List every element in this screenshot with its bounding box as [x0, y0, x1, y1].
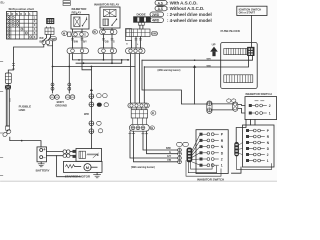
svg-text:: With A.S.C.D.: : With A.S.C.D.: [167, 1, 198, 6]
wire battery to starter (upper): [47, 151, 64, 153]
relay K2 pins: [104, 28, 113, 29]
svg-text:(With warning buzzer): (With warning buzzer): [131, 166, 155, 169]
fusible link head: [5, 85, 11, 89]
wire fusible link to battery: [10, 137, 41, 147]
inline connector S4: [89, 129, 103, 134]
capsule connector R1: [207, 101, 212, 114]
wires capsule C3 down to mid chain: [131, 54, 145, 103]
ground wire G2: [68, 54, 71, 93]
wire below lower box: [232, 167, 242, 173]
wire A bus to fuse block: [142, 56, 253, 61]
svg-text:2: 2: [221, 158, 223, 162]
battery BAT: [37, 147, 47, 162]
label DIODE: [137, 13, 146, 17]
svg-text:LINK: LINK: [19, 108, 27, 112]
tag B1: [151, 111, 156, 115]
svg-text:FUSE BLOCK: FUSE BLOCK: [221, 29, 241, 33]
inhibitor switch 2WD box: [245, 97, 277, 120]
svg-text:W/R: W/R: [84, 113, 89, 116]
connector pair CD1: [63, 150, 73, 154]
capsule connector C2: [98, 48, 117, 54]
label STARTER MOTOR: [65, 175, 91, 179]
tag ovals R2: [227, 99, 236, 102]
svg-text:R: R: [12, 13, 14, 16]
diode connector: [139, 22, 145, 29]
wire loop to starter ground: [57, 156, 80, 177]
tag B2: [150, 126, 154, 130]
connector block E1: [5, 73, 11, 84]
UP arrow: [210, 42, 218, 56]
label INHIBITOR SWITCH (4WD): [197, 178, 224, 182]
bus wire L3: [53, 66, 136, 68]
connector pair CD2: [63, 154, 73, 158]
fuse row upper: [224, 49, 247, 55]
wire ignition to fuse block: [251, 16, 253, 48]
inline oval connectors below X2: [42, 40, 53, 46]
inhibitor switch 4WD box: [196, 130, 228, 174]
capsule connector C1: [67, 48, 89, 54]
wires block J3 to capsule C3: [126, 37, 142, 49]
diode D1: [134, 17, 151, 23]
wire chain to starter (node S): [90, 91, 92, 149]
svg-text:2WD: 2WD: [152, 32, 158, 36]
label W/R: [84, 113, 89, 116]
svg-text:EL·: EL·: [1, 1, 6, 5]
wire labels to 4WD switch: [166, 147, 172, 162]
legend tag 4WD: [150, 18, 212, 23]
svg-text:INHIBITOR RELAY: INHIBITOR RELAY: [94, 3, 119, 7]
svg-text:2: 2: [267, 153, 269, 157]
label INHIBITOR SWITCH (2WD): [246, 92, 272, 96]
INHIBITOR RELAY label (left): [72, 7, 88, 14]
ground wire G1: [51, 66, 54, 93]
inhibitor relay K2: [100, 7, 120, 28]
starter motor box: [64, 161, 103, 172]
label FUSE BLOCK: [221, 29, 241, 33]
inline connector R3: [212, 102, 245, 113]
svg-text:Y/B: Y/B: [167, 159, 171, 162]
label FUSIBLE LINK: [19, 105, 32, 113]
tag 2WD (block J3): [151, 32, 157, 36]
dark mating connector: [187, 148, 193, 163]
mid connector block M2: [131, 108, 147, 118]
inline connector S2: [89, 102, 108, 107]
bus wire L2: [76, 54, 122, 64]
ground connector pair GP1: [50, 95, 59, 99]
svg-text:1: 1: [269, 112, 271, 116]
wire drop to starter chain: [90, 67, 93, 92]
svg-text:IGNITION SWITCH: IGNITION SWITCH: [239, 7, 262, 11]
inline connector S3: [89, 121, 101, 126]
relay K2 connector row: [100, 29, 118, 34]
wire B bus to fuse block: [144, 56, 248, 72]
inline connector S1: [89, 94, 107, 99]
wire battery to starter (lower): [47, 155, 64, 157]
fusible link lower connector: [2, 126, 11, 137]
svg-text:4WD: 4WD: [152, 19, 160, 23]
fuse block FB: [221, 42, 258, 88]
svg-text:GROUND: GROUND: [55, 104, 67, 108]
bus wire L1: [73, 54, 129, 61]
bus wire L4: [82, 54, 91, 70]
svg-text:G: G: [113, 42, 115, 44]
connector X2 (pin grid): [45, 27, 54, 35]
wire loop below lower-right box: [237, 156, 272, 169]
svg-text:2WD: 2WD: [152, 13, 160, 17]
svg-text:UP: UP: [212, 42, 216, 46]
tag oval T2: [183, 142, 189, 146]
wires 2WD box to lower box: [236, 120, 255, 142]
wires relay K2 to capsule C2: [102, 35, 115, 48]
wire stub labels below X2: [40, 37, 45, 44]
fan wires into 4WD switch: [192, 134, 200, 165]
svg-text:B/Y: B/Y: [83, 42, 87, 44]
svg-text:B/W: B/W: [40, 40, 45, 43]
svg-text:2WD: 2WD: [50, 37, 56, 41]
ground below battery: [38, 162, 44, 167]
shift position chart table: [7, 7, 38, 39]
label BATTERY: [36, 169, 51, 173]
svg-text:G/B: G/B: [105, 42, 109, 44]
fuse block connector (dark): [247, 47, 254, 56]
svg-text:N: N: [16, 13, 18, 16]
svg-text:STARTER MOTOR: STARTER MOTOR: [65, 175, 91, 179]
legend tag A.S: [155, 0, 198, 5]
mid capsule M3: [130, 118, 150, 131]
inhibitor relay K1: [71, 13, 89, 29]
svg-text:RELAY: RELAY: [72, 11, 82, 15]
fuse row lower: [224, 75, 253, 83]
svg-text:DIODE: DIODE: [137, 13, 146, 17]
mid capsule M1: [128, 103, 149, 108]
tag oval T1: [177, 142, 183, 146]
svg-text:2: 2: [269, 104, 271, 108]
ground wire left: [7, 84, 9, 87]
wire from X2 to fusible link (left drop): [8, 35, 50, 74]
svg-text:G: G: [169, 151, 171, 154]
svg-text:B: B: [152, 111, 154, 115]
tag W1: [93, 30, 98, 34]
label BODY GROUND: [55, 100, 67, 107]
relay K1 connector row: [68, 32, 89, 37]
connector stack to 4WD switch: [178, 148, 182, 164]
inhibitor switch lower-right box: [243, 125, 275, 167]
2WD switch contact rows: [249, 101, 271, 116]
connector block J3: [126, 29, 151, 41]
wires mid chain to inhibitor 4WD connector: [129, 131, 178, 162]
svg-text:INHIBITOR SWITCH: INHIBITOR SWITCH: [246, 92, 272, 96]
wires relay K1 to capsule C1: [71, 37, 87, 48]
page corner mark: [1, 1, 6, 5]
svg-text:BATTERY: BATTERY: [36, 169, 51, 173]
label with warning note: [131, 166, 155, 169]
wire path bus to inhibitor 2WD: [142, 60, 207, 104]
capsule connector C3: [126, 48, 146, 54]
small connector marks above relay K1: [63, 1, 70, 6]
svg-text:D: D: [20, 13, 22, 16]
svg-text:B/W: B/W: [166, 147, 171, 150]
4WD switch contact rows: [200, 133, 224, 168]
svg-text:Shift position chart: Shift position chart: [9, 7, 34, 11]
svg-text:W: W: [93, 30, 96, 34]
svg-text:ON or START: ON or START: [239, 11, 256, 15]
INHIBITOR RELAY label (right): [94, 3, 119, 7]
svg-text:W/B: W/B: [207, 66, 212, 68]
fusible link FL: [6, 89, 10, 126]
svg-text:B: B: [151, 126, 153, 130]
relay K1 pins: [73, 29, 83, 32]
svg-text:: 2-wheel drive model: : 2-wheel drive model: [167, 12, 212, 17]
wire loops below 4WD switch: [186, 161, 221, 177]
svg-text:A.S: A.S: [158, 7, 164, 11]
svg-text:(With warning buzzer): (With warning buzzer): [158, 69, 181, 72]
legend tag 2WD: [150, 12, 212, 17]
scan edge artifacts: [0, 62, 277, 182]
starter motor solenoid box: [73, 149, 102, 162]
lower box contact rows: [246, 129, 270, 163]
ground connector pair GP2: [65, 95, 74, 99]
ignition switch box: [237, 6, 267, 15]
svg-text:1: 1: [267, 159, 269, 163]
legend tag A.S-bar: [155, 6, 204, 11]
connector X1 (dark): [47, 18, 55, 24]
svg-text:G/Y: G/Y: [167, 155, 172, 158]
svg-text:A.S: A.S: [158, 1, 164, 5]
2WD tag near X2: [50, 37, 57, 41]
junction node at 194.6: [193, 59, 196, 67]
tag M1: [62, 31, 67, 35]
capsule connector into lower box: [234, 142, 242, 157]
svg-text:1: 1: [221, 164, 223, 168]
ground below starter motor: [94, 172, 101, 177]
svg-text:: Without A.S.C.D.: : Without A.S.C.D.: [167, 6, 204, 11]
svg-text:W/R: W/R: [207, 59, 212, 61]
wire 2WD drop from table: [52, 41, 54, 67]
svg-text:: 4-wheel drive model: : 4-wheel drive model: [167, 18, 212, 23]
